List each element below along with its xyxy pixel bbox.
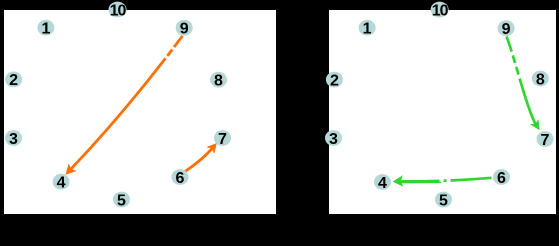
svg-text:8: 8 bbox=[214, 73, 223, 90]
svg-text:1: 1 bbox=[363, 21, 372, 38]
svg-text:1: 1 bbox=[41, 21, 50, 38]
svg-text:2: 2 bbox=[9, 72, 18, 89]
svg-text:8: 8 bbox=[536, 71, 545, 88]
svg-text:6: 6 bbox=[497, 170, 506, 187]
svg-text:5: 5 bbox=[117, 192, 126, 209]
svg-text:3: 3 bbox=[329, 131, 338, 148]
svg-text:10: 10 bbox=[110, 2, 127, 19]
svg-text:2: 2 bbox=[330, 72, 339, 89]
svg-text:10: 10 bbox=[432, 2, 449, 19]
svg-text:9: 9 bbox=[502, 21, 511, 38]
svg-text:6: 6 bbox=[176, 170, 185, 187]
svg-text:7: 7 bbox=[218, 131, 227, 148]
svg-text:7: 7 bbox=[541, 132, 550, 149]
svg-text:3: 3 bbox=[9, 131, 18, 148]
svg-text:4: 4 bbox=[378, 175, 387, 192]
svg-text:9: 9 bbox=[180, 21, 189, 38]
svg-text:5: 5 bbox=[439, 192, 448, 209]
svg-text:4: 4 bbox=[57, 175, 66, 192]
